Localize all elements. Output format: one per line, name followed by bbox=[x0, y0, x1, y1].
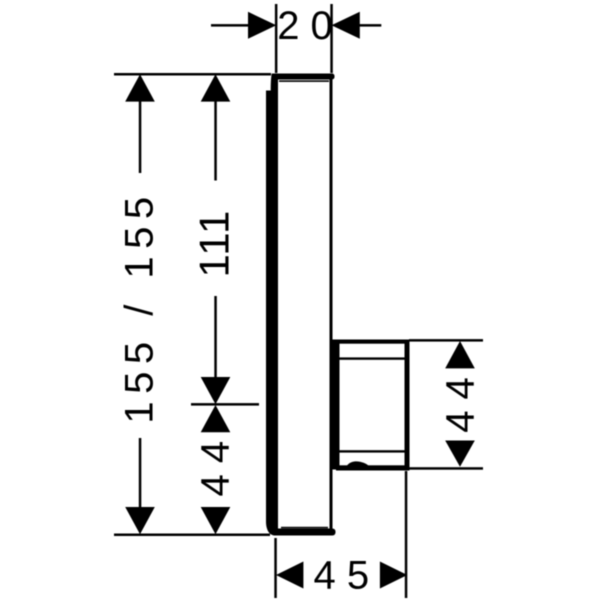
plate bottom bar bbox=[272, 529, 336, 536]
dim 45 right arrow bbox=[380, 562, 407, 589]
dim 44 (left) top arrow (up, from boundary) bbox=[201, 405, 231, 432]
dim 44 (left) bottom arrow bbox=[201, 507, 231, 534]
dim 20 left arrow bbox=[248, 12, 276, 39]
dim 20 left tail line bbox=[211, 24, 249, 27]
dim 155/155 bottom arrow bbox=[125, 507, 155, 534]
plate right edge bbox=[330, 74, 333, 536]
dim 20 right arrow bbox=[332, 12, 360, 39]
dim 155/155 line upper segment bbox=[139, 101, 142, 174]
extension line top-left (20 dim, at plate back face) bbox=[275, 4, 278, 73]
extension line at 111/44 boundary bbox=[191, 403, 259, 406]
svg-text:4 4: 4 4 bbox=[439, 377, 483, 433]
plate bottom inner accent line bbox=[281, 527, 328, 529]
valve housing inner bottom line bbox=[340, 450, 406, 452]
dim 44 (right) bottom arrow bbox=[445, 441, 475, 467]
extension line right bottom (44 dim, valve bottom) bbox=[409, 467, 483, 470]
valve housing right edge bbox=[405, 340, 410, 470]
svg-text:111: 111 bbox=[191, 209, 238, 277]
valve housing bottom bar bbox=[336, 465, 410, 470]
dim 111 bottom arrow (down, to 111/44 boundary) bbox=[201, 377, 231, 404]
plate top inner accent line bbox=[279, 80, 329, 82]
valve housing left band (joint with plate) bbox=[330, 340, 340, 470]
extension line bottom horizontal (155/44 dims, plate bottom) bbox=[114, 534, 270, 537]
dim 155/155 line lower segment bbox=[139, 438, 142, 509]
extension line bottom-left vertical (45 dim) bbox=[274, 538, 277, 598]
valve housing bottom bump bbox=[347, 461, 369, 465]
dim 111 top arrow bbox=[201, 74, 231, 101]
svg-text:2 0: 2 0 bbox=[277, 4, 333, 48]
dim 111 line upper segment bbox=[214, 101, 217, 181]
extension line top horizontal (155/111 dims, plate top) bbox=[114, 73, 271, 76]
dim 45 left arrow bbox=[276, 562, 303, 589]
plate top bar bbox=[272, 74, 335, 80]
extension line bottom-right vertical (45 dim) bbox=[405, 471, 408, 598]
dim 20 right tail line bbox=[359, 24, 382, 27]
dim 111 line lower segment bbox=[214, 296, 217, 380]
svg-text:4 5: 4 5 bbox=[313, 554, 369, 598]
extension line right top (44 dim, valve top) bbox=[409, 339, 483, 342]
svg-text:4 4: 4 4 bbox=[194, 441, 238, 497]
extension line top-right (20 dim, at plate front face) bbox=[330, 4, 333, 73]
dim 44 (right) top arrow bbox=[445, 341, 475, 368]
escutcheon plate left edge (thick profile) bbox=[266, 74, 278, 536]
dim 155/155 top arrow bbox=[125, 74, 155, 101]
svg-text:155 / 155: 155 / 155 bbox=[118, 189, 162, 423]
valve housing inner top line bbox=[340, 357, 406, 359]
valve housing top bar bbox=[332, 340, 410, 344]
